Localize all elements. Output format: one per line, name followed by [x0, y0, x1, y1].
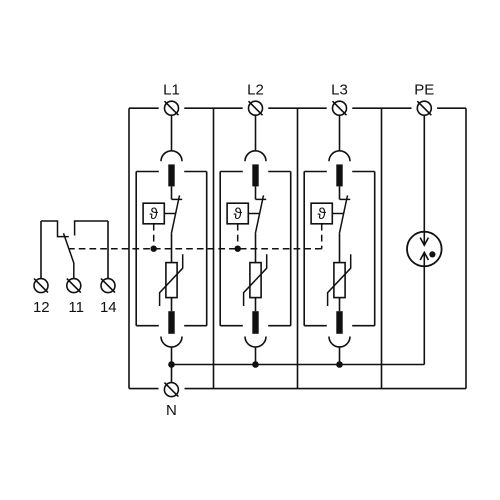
- svg-text:PE: PE: [414, 81, 434, 98]
- svg-text:12: 12: [33, 299, 50, 316]
- svg-text:ϑ: ϑ: [317, 206, 326, 223]
- svg-text:N: N: [166, 402, 177, 419]
- svg-text:ϑ: ϑ: [149, 206, 158, 223]
- svg-text:ϑ: ϑ: [233, 206, 242, 223]
- svg-text:L3: L3: [331, 81, 348, 98]
- svg-text:11: 11: [68, 299, 84, 316]
- svg-text:L2: L2: [247, 81, 264, 98]
- svg-text:L1: L1: [163, 81, 180, 98]
- svg-text:14: 14: [100, 299, 117, 316]
